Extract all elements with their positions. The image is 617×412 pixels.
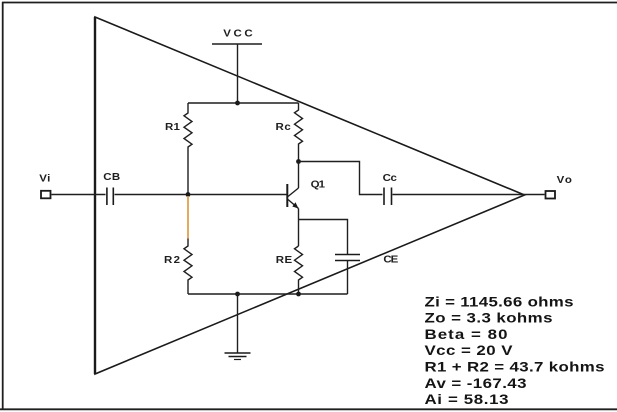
svg-text:R2: R2 — [164, 254, 180, 265]
resistor R1 — [165, 103, 192, 195]
wire Cc to Vo — [393, 194, 545, 196]
svg-text:RE: RE — [276, 255, 292, 266]
capacitor Cc — [383, 173, 397, 205]
power VCC — [212, 28, 262, 44]
wire node highlight (orange) — [187, 196, 189, 239]
wire to ground — [237, 294, 239, 353]
svg-text:Vi: Vi — [39, 173, 50, 184]
op-amp U1 (amplifier triangle) — [95, 17, 525, 374]
svg-text:Zi = 1145.66 ohms: Zi = 1145.66 ohms — [425, 295, 574, 310]
svg-text:R1: R1 — [165, 122, 180, 133]
circuit parameters text — [425, 295, 605, 408]
junction ground tap — [235, 292, 240, 297]
svg-text:Vo: Vo — [557, 175, 573, 186]
junction collector node — [296, 159, 301, 164]
transistor Q1 — [287, 179, 325, 209]
svg-text:CE: CE — [383, 254, 398, 265]
terminal Vo — [546, 175, 573, 199]
terminal Vi — [39, 173, 50, 198]
resistor RE — [276, 246, 303, 294]
wire bottom rail — [188, 293, 348, 295]
svg-text:VCC: VCC — [223, 28, 253, 39]
resistor R2 — [164, 239, 192, 295]
wire emitter to CE branch — [299, 220, 348, 255]
svg-text:CB: CB — [103, 172, 120, 183]
svg-text:R1 + R2 = 43.7 kohms: R1 + R2 = 43.7 kohms — [425, 360, 605, 375]
svg-text:Beta = 80: Beta = 80 — [425, 327, 508, 342]
svg-text:Vcc = 20 V: Vcc = 20 V — [425, 344, 514, 359]
junction on top rail — [235, 101, 240, 106]
svg-text:Av = -167.43: Av = -167.43 — [425, 376, 527, 391]
svg-text:Q1: Q1 — [311, 179, 325, 190]
svg-text:Ai = 58.13: Ai = 58.13 — [425, 393, 509, 408]
wire Vi to CB — [52, 194, 106, 196]
wire collector to Cc — [299, 162, 383, 195]
wire VCC to top rail — [237, 44, 239, 103]
capacitor CB — [103, 172, 120, 205]
svg-text:Rc: Rc — [276, 122, 291, 133]
wire top rail — [188, 102, 299, 104]
wire collector stub — [298, 162, 300, 189]
junction base node — [186, 192, 191, 197]
resistor Rc — [276, 103, 303, 162]
capacitor CE — [335, 254, 398, 265]
svg-text:Zo = 3.3 kohms: Zo = 3.3 kohms — [425, 311, 553, 326]
junction RE bottom — [296, 292, 301, 297]
svg-text:Cc: Cc — [383, 173, 397, 184]
wire CB to base of Q1 — [115, 194, 287, 196]
wire CE bottom — [347, 261, 349, 295]
wire emitter to RE — [298, 209, 300, 247]
ground — [225, 353, 251, 360]
